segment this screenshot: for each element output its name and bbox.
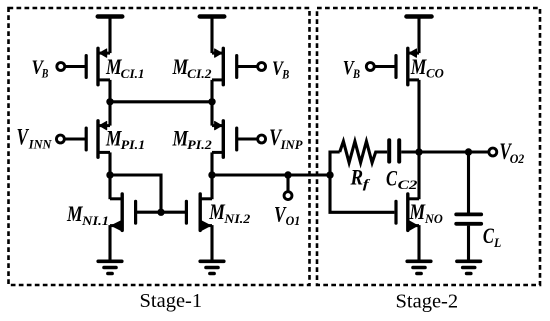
svg-text:Stage-1: Stage-1 <box>140 290 203 312</box>
svg-text:M: M <box>409 199 427 224</box>
svg-text:B: B <box>41 66 48 80</box>
svg-text:INN: INN <box>28 137 53 151</box>
svg-text:PI.2: PI.2 <box>187 138 212 152</box>
svg-text:NI.1: NI.1 <box>81 214 109 228</box>
svg-text:CI.1: CI.1 <box>121 67 145 81</box>
svg-text:PI.1: PI.1 <box>121 138 146 152</box>
svg-text:NI.2: NI.2 <box>223 212 250 226</box>
svg-text:V: V <box>17 125 30 151</box>
svg-text:B: B <box>281 67 289 81</box>
svg-text:CI.2: CI.2 <box>187 67 211 81</box>
svg-text:INP: INP <box>280 138 303 152</box>
svg-text:O2: O2 <box>510 152 525 166</box>
svg-text:C: C <box>386 166 397 190</box>
svg-text:C: C <box>483 223 495 248</box>
svg-text:CO: CO <box>426 67 444 81</box>
svg-text:B: B <box>352 67 360 81</box>
svg-text:C2: C2 <box>398 178 418 192</box>
svg-text:L: L <box>493 236 502 250</box>
svg-text:NO: NO <box>424 212 443 226</box>
svg-text:O1: O1 <box>286 214 301 228</box>
svg-text:Stage-2: Stage-2 <box>396 291 459 313</box>
svg-text:M: M <box>410 54 428 79</box>
svg-text:R: R <box>350 164 363 189</box>
